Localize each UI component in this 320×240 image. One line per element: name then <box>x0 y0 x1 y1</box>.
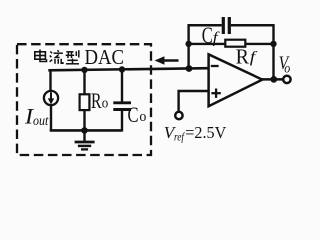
wire current source top lead <box>49 69 51 91</box>
resistor Ro <box>80 94 90 110</box>
ground <box>83 130 85 141</box>
label 型 <box>66 50 79 64</box>
node ground junction <box>81 127 88 134</box>
wire output <box>261 78 283 81</box>
wire node (DAC output to op-amp inverting input) <box>48 68 208 70</box>
DAC box (dashed) <box>17 44 151 155</box>
svg-text:o: o <box>139 109 146 125</box>
capacitor Co <box>113 101 131 104</box>
node output junction <box>270 76 277 83</box>
wire Cf top right <box>231 24 275 27</box>
op-amp U1 <box>209 54 263 106</box>
svg-text:o: o <box>102 96 109 112</box>
node Co top <box>119 66 125 72</box>
wire feedback left vertical <box>187 24 189 68</box>
label 电 <box>35 50 47 62</box>
arrow current direction <box>163 59 179 62</box>
svg-text:C: C <box>128 102 139 127</box>
resistor Rf <box>225 40 245 47</box>
node Rf left junction <box>185 41 191 47</box>
wire current source bottom lead <box>50 105 52 131</box>
wire Rf feedback <box>189 43 274 45</box>
capacitor Cf <box>222 17 225 34</box>
current source Iout <box>44 91 58 105</box>
svg-text:R: R <box>236 44 250 68</box>
plus input mark <box>211 92 220 94</box>
svg-text:ref: ref <box>174 132 185 144</box>
svg-text:R: R <box>91 88 102 113</box>
wire non-inverting input <box>179 91 209 112</box>
node inverting input junction <box>186 65 193 72</box>
wire Co top lead <box>121 69 123 102</box>
wire Ro bottom lead <box>83 110 85 131</box>
terminal Vo <box>283 76 290 83</box>
svg-text:=2.5V: =2.5V <box>185 123 226 142</box>
terminal Vref <box>175 112 182 119</box>
wire Co bottom lead <box>121 111 123 132</box>
svg-text:o: o <box>284 61 290 76</box>
wire feedback right vertical <box>272 24 274 79</box>
minus input mark <box>211 65 219 67</box>
node Rf right junction <box>270 41 276 47</box>
wire bottom rail <box>50 129 123 132</box>
svg-text:DAC: DAC <box>85 45 125 69</box>
label 流 <box>50 50 63 64</box>
node Ro top <box>81 67 87 73</box>
wire Ro top lead <box>83 69 85 94</box>
wire Cf top left <box>188 24 222 27</box>
svg-text:f: f <box>250 49 259 66</box>
svg-text:out: out <box>33 113 49 128</box>
